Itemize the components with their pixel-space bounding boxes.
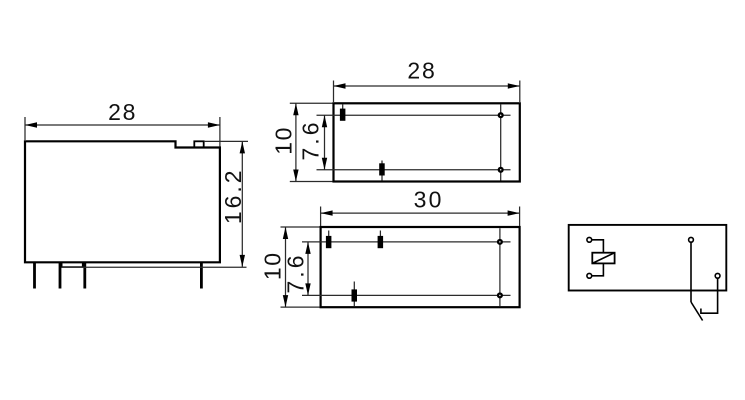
svg-text:10: 10 xyxy=(260,252,286,281)
svg-text:28: 28 xyxy=(108,99,137,125)
svg-text:10: 10 xyxy=(270,126,296,155)
svg-text:7.6: 7.6 xyxy=(298,120,324,161)
svg-text:28: 28 xyxy=(407,58,436,84)
svg-text:7.6: 7.6 xyxy=(283,253,309,294)
svg-text:30: 30 xyxy=(414,187,444,213)
svg-text:16.2: 16.2 xyxy=(220,167,246,224)
